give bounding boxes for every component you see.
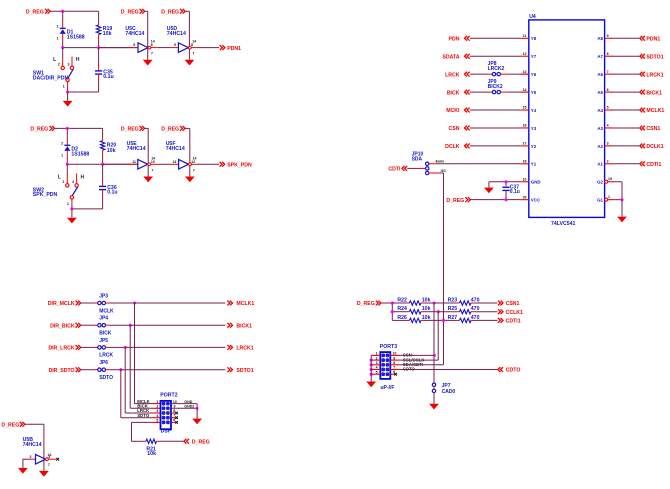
ground under U5F [185, 177, 195, 183]
svg-text:5: 5 [376, 370, 378, 374]
port DCLK1 [640, 143, 664, 150]
svg-text:10k: 10k [107, 148, 116, 154]
wire BICK down to PORT2 pin 2 [130, 325, 160, 408]
svg-text:5: 5 [133, 43, 135, 47]
op-amp/inverter U5B 74HC14 (spare) [23, 437, 51, 464]
svg-text:LRCK1: LRCK1 [646, 72, 663, 78]
svg-text:74HC14: 74HC14 [167, 31, 186, 37]
op-amp/inverter U5F 74HC14 [166, 141, 196, 169]
resistor R19 10k [96, 22, 112, 48]
port DIR_MCLK [48, 301, 81, 308]
svg-text:PDN: PDN [449, 37, 460, 43]
svg-text:74HC14: 74HC14 [23, 442, 42, 448]
IC pin 10 GND [521, 177, 541, 184]
node junction D_REG/D2 [66, 127, 69, 130]
svg-text:3: 3 [29, 455, 31, 459]
ground under U5B supply [39, 471, 49, 477]
PORT2 no-connect pins 8,7,6 [171, 409, 178, 424]
ground under U5D [185, 60, 195, 66]
svg-text:R25: R25 [448, 306, 458, 312]
wire node CCLK junction [425, 310, 440, 313]
wire U5F out to port SPK_PDN [191, 163, 219, 165]
resistor R21 10k [146, 439, 183, 457]
wire PORT2 pin 5 to R21 [132, 422, 161, 441]
port MCKI (input to U4) [446, 108, 469, 115]
svg-text:10k: 10k [103, 31, 112, 37]
port D_REG (U5C supply) [121, 9, 145, 16]
op-amp/inverter U5E 74HC14 [127, 141, 155, 169]
port CDTI1 [640, 161, 662, 168]
wire U5E out to U5F in [151, 160, 179, 164]
svg-text:A8: A8 [597, 36, 603, 41]
svg-text:3: 3 [68, 63, 70, 67]
svg-text:SDATA: SDATA [442, 54, 459, 60]
IC pin 9 A8 [597, 34, 613, 41]
port SPK_PDN [220, 162, 252, 169]
port LRCK (input to U4) [445, 72, 470, 79]
port SDTO1 [640, 54, 664, 61]
svg-text:SDTO: SDTO [137, 413, 150, 418]
node junction MCLK [133, 301, 136, 304]
ground under U5E [143, 177, 153, 183]
svg-text:CAD0: CAD0 [442, 389, 456, 395]
capacitor C35 0.1u [95, 48, 114, 92]
IC pin 11 Y8 [521, 34, 537, 41]
wire PDN to U4 [470, 37, 521, 39]
svg-text:8: 8 [191, 43, 193, 47]
svg-text:7: 7 [173, 414, 175, 418]
svg-text:DAC/DIR_PDN: DAC/DIR_PDN [33, 75, 69, 81]
svg-text:MCLK1: MCLK1 [646, 108, 664, 114]
svg-text:9: 9 [174, 43, 176, 47]
svg-text:R24: R24 [397, 306, 407, 312]
switch SW2 SPK_PDN [33, 164, 85, 209]
svg-text:R23: R23 [448, 297, 458, 303]
resistor R23 470 [434, 297, 480, 305]
diode D1 1S1588 [57, 11, 85, 47]
svg-text:Y4: Y4 [531, 108, 537, 113]
svg-text:DIR_LRCK: DIR_LRCK [48, 346, 74, 352]
svg-text:4: 4 [156, 414, 158, 418]
wire mid row block2 [66, 163, 138, 166]
svg-text:15: 15 [523, 106, 527, 110]
svg-text:PORT3: PORT3 [380, 344, 397, 350]
svg-text:1: 1 [57, 37, 59, 41]
wire to port BICK1 [130, 324, 225, 326]
port CSN (input to U4) [449, 126, 470, 133]
svg-text:JP3: JP3 [99, 293, 108, 299]
svg-text:1: 1 [376, 352, 378, 356]
IC pin 19 G2 [597, 177, 613, 185]
wire U5B output no-connect [48, 458, 59, 461]
svg-text:SDTO1: SDTO1 [236, 368, 253, 374]
svg-text:2: 2 [57, 24, 59, 28]
wire PORT3 pin7 CDTO to port [390, 369, 497, 371]
svg-text:JP7: JP7 [442, 383, 451, 389]
wire U4 A7 to port SDTO1 [613, 55, 639, 57]
svg-text:5: 5 [607, 106, 609, 110]
jumper JP7 CAD0 [432, 383, 455, 404]
jumper JP5 LRCK [81, 338, 125, 359]
node junction BICK [129, 324, 132, 327]
svg-text:1: 1 [61, 154, 63, 158]
svg-text:A7: A7 [597, 54, 603, 59]
svg-text:12: 12 [191, 160, 195, 164]
svg-text:3: 3 [607, 142, 609, 146]
PORT3 right pin numbers and names [393, 352, 426, 374]
svg-text:19: 19 [608, 177, 612, 181]
wire U5F supply / power pins 14,7 [185, 128, 196, 176]
svg-text:LRCK2: LRCK2 [488, 66, 505, 72]
svg-text:LRCK: LRCK [99, 353, 113, 359]
wire SDTO down to PORT2 pin 4 [121, 370, 161, 418]
wire U4 A6 to port LRCK1 [613, 73, 639, 75]
svg-text:Y3: Y3 [531, 126, 537, 131]
svg-text:CSN1: CSN1 [506, 301, 520, 307]
jumper JP10 SDA [412, 151, 429, 174]
svg-text:12: 12 [523, 52, 527, 56]
svg-text:D_REG: D_REG [192, 440, 210, 446]
ground at U4 G1/G2 [617, 217, 627, 223]
svg-text:Y6: Y6 [531, 72, 537, 77]
svg-text:D_REG: D_REG [446, 198, 464, 204]
svg-text:74HC14: 74HC14 [127, 146, 146, 152]
svg-text:13: 13 [172, 160, 176, 164]
IC pin 6 A5 [597, 88, 613, 95]
svg-text:DIR_BICK: DIR_BICK [50, 323, 75, 329]
svg-text:GND2: GND2 [184, 405, 194, 409]
svg-text:7: 7 [151, 52, 153, 56]
svg-text:3wire: 3wire [435, 159, 444, 163]
IC pin 2 A1 [597, 160, 613, 167]
resistor R26 10k [394, 315, 431, 323]
wire node CDTI junction [425, 319, 445, 322]
svg-text:G2: G2 [597, 180, 603, 185]
wire U4 A5 to port BICK1 [613, 91, 639, 93]
port D_REG (U4 VCC) [446, 197, 470, 204]
wire to port LRCK1 [125, 346, 225, 348]
IC pin 13 Y6 [521, 70, 537, 77]
port CSN1 [498, 301, 520, 308]
svg-text:DCLK1: DCLK1 [646, 144, 663, 150]
svg-text:8: 8 [173, 409, 175, 413]
port BICK1 [227, 323, 252, 330]
svg-text:R26: R26 [397, 315, 407, 321]
svg-text:CDTI1: CDTI1 [506, 319, 521, 325]
svg-text:D_REG: D_REG [121, 127, 139, 133]
IC pin 18 Y1 [521, 160, 537, 167]
resistor R20 10k [100, 138, 116, 165]
port CSN1 [640, 126, 661, 133]
svg-text:JP4: JP4 [99, 316, 108, 322]
port MCLK1 [640, 108, 665, 115]
IC pin 4 A3 [597, 124, 613, 131]
svg-text:0.1u: 0.1u [107, 190, 117, 196]
wire CDTI/I2C vertical to PORT3 pin 8 [442, 319, 445, 365]
svg-text:BICK1: BICK1 [236, 323, 252, 329]
op-amp/inverter U5C 74HC14 [125, 26, 152, 53]
wire PORT3 pin8 SDA/CDTI [390, 364, 443, 366]
wire I2C vertical down to R26 node [443, 173, 445, 320]
svg-text:2: 2 [376, 356, 378, 360]
port BICK (input to U4) [447, 90, 470, 97]
wire U4 GND pin to ground [489, 182, 521, 188]
op-amp/inverter U5D 74HC14 [167, 26, 193, 53]
wire to port SDTO1 [121, 369, 226, 371]
svg-text:CDTO: CDTO [506, 368, 521, 374]
svg-text:D_REG: D_REG [357, 301, 375, 307]
port LRCK1 [227, 345, 253, 352]
diode D2 1S1588 [61, 128, 89, 164]
svg-text:7: 7 [48, 463, 50, 467]
wire MCLK down to PORT2 pin 1 [135, 303, 161, 404]
svg-text:D_REG: D_REG [161, 10, 179, 16]
wire DCLK to U4 [470, 145, 521, 147]
svg-text:Y7: Y7 [531, 54, 537, 59]
wire SW1 common to C35 bottom [66, 90, 99, 93]
svg-text:4: 4 [607, 124, 609, 128]
svg-text:4: 4 [376, 366, 378, 370]
svg-text:L: L [53, 57, 56, 63]
svg-text:1: 1 [608, 195, 610, 199]
wire node CSN junction [425, 301, 436, 304]
ground at PORT2 [192, 419, 202, 425]
svg-text:JP6: JP6 [99, 360, 108, 366]
svg-text:DIR_MCLK: DIR_MCLK [48, 301, 75, 307]
ground at U4 GND [484, 188, 494, 194]
wire JP10 bottom to I2C net [429, 169, 447, 173]
port PDN1 [220, 45, 241, 52]
svg-text:1S1588: 1S1588 [67, 35, 85, 41]
svg-text:16: 16 [523, 124, 527, 128]
svg-text:SPK_PDN: SPK_PDN [227, 163, 252, 169]
svg-text:A5: A5 [597, 90, 603, 95]
svg-text:R22: R22 [397, 297, 407, 303]
wire to port CCLK1 [475, 311, 497, 313]
connector PORT3 (uP I/F) [380, 344, 397, 391]
svg-text:SDTO: SDTO [99, 375, 113, 381]
svg-text:2: 2 [62, 180, 64, 184]
resistor R24 10k [394, 306, 431, 314]
IC U4 74LVC541 body [529, 14, 605, 227]
svg-text:SDA: SDA [412, 156, 423, 162]
switch SW1 DAC/DIR_PDN [33, 48, 80, 92]
svg-text:Y1: Y1 [531, 162, 537, 167]
port D_REG (R21 pull-up) [184, 439, 210, 446]
wire U5E supply / power pins 14,7 [145, 128, 155, 176]
wire LRCK down to PORT2 pin 3 [125, 347, 160, 413]
PORT3 pin 6 no-connect [390, 373, 397, 376]
svg-text:0.1u: 0.1u [510, 189, 520, 195]
ground under SW1 [63, 92, 73, 107]
wire U4 A2 to port DCLK1 [613, 145, 639, 147]
svg-text:Y8: Y8 [531, 36, 537, 41]
svg-text:H: H [81, 175, 85, 181]
svg-text:CSN: CSN [449, 126, 460, 132]
ground at PORT3 [366, 382, 376, 388]
port D_REG (U5B supply) [1, 422, 24, 429]
svg-text:PDN1: PDN1 [646, 37, 660, 43]
port DCLK (input to U4) [445, 143, 470, 150]
svg-text:10: 10 [173, 400, 177, 404]
svg-text:L: L [58, 175, 61, 181]
IC pin 8 A7 [597, 52, 613, 59]
svg-text:2: 2 [58, 63, 60, 67]
svg-text:11: 11 [132, 160, 136, 164]
wire U5D supply / power pins 14,7 [185, 11, 196, 60]
svg-text:BICK: BICK [99, 331, 112, 337]
svg-text:JP5: JP5 [99, 338, 108, 344]
wire R19 node to U5C input [99, 43, 138, 47]
port D_REG (pull-up feed) [357, 301, 381, 308]
svg-text:1S1588: 1S1588 [71, 152, 89, 158]
wire U5B supply [25, 424, 51, 471]
ground at JP7 [429, 404, 439, 410]
svg-text:CDTI: CDTI [388, 167, 401, 173]
IC pin 7 A6 [597, 70, 613, 77]
svg-text:7: 7 [607, 70, 609, 74]
svg-text:A3: A3 [597, 126, 603, 131]
svg-text:Y5: Y5 [531, 90, 537, 95]
svg-text:MCKI: MCKI [446, 108, 460, 114]
port SDATA (input to U4) [442, 54, 469, 61]
jumper JP4 BICK [81, 316, 130, 337]
svg-text:GND: GND [531, 180, 541, 185]
svg-text:A2: A2 [597, 144, 603, 149]
wire U4 G2/G1 enables to ground [613, 182, 624, 217]
svg-text:3: 3 [376, 361, 378, 365]
resistor R25 470 [438, 306, 479, 314]
PORT3 left pins to ground bar [370, 352, 381, 382]
svg-text:74HC14: 74HC14 [125, 31, 144, 37]
svg-text:18: 18 [523, 160, 527, 164]
svg-text:1: 1 [67, 202, 69, 206]
wire U4 A3 to port CSN1 [613, 127, 639, 129]
svg-text:LRCK1: LRCK1 [236, 346, 253, 352]
svg-text:13: 13 [523, 70, 527, 74]
svg-text:MCLK1: MCLK1 [236, 301, 254, 307]
svg-text:6: 6 [607, 88, 609, 92]
svg-text:3: 3 [72, 180, 74, 184]
resistor R22 10k [392, 297, 430, 305]
svg-text:DCLK: DCLK [445, 144, 460, 150]
svg-text:DIR_SDTO: DIR_SDTO [48, 368, 74, 374]
port BICK1 [640, 90, 662, 97]
svg-text:Y2: Y2 [531, 144, 537, 149]
jumper JP6 SDTO [81, 360, 121, 381]
svg-text:PORT2: PORT2 [160, 393, 177, 399]
port CCLK1 [498, 309, 523, 316]
svg-text:10: 10 [151, 160, 155, 164]
svg-text:LRCK: LRCK [445, 72, 460, 78]
svg-text:GND: GND [184, 400, 192, 404]
capacitor C36 0.1u [99, 164, 118, 209]
wire U4 A4 to port MCLK1 [613, 109, 639, 111]
svg-text:4: 4 [48, 455, 50, 459]
wire CSN pull-up vertical to PORT3 pin 10 and JP7 [433, 303, 436, 383]
jumper JP9 BICK2 [470, 79, 529, 94]
wire CCLK pull-up vertical to PORT3 pin 9 [437, 312, 439, 360]
svg-text:H: H [76, 57, 80, 63]
wire CDTI to JP10 middle [407, 167, 425, 169]
port MCLK1 [227, 301, 254, 308]
wire mid row block1 [61, 46, 138, 49]
svg-text:MCLK: MCLK [99, 308, 114, 314]
port CDTI [388, 166, 407, 173]
wire SW2 common to C36 bottom [70, 207, 102, 210]
wire U5C out to U5D in [151, 43, 179, 47]
PORT2 pin 10/9 GND2 wires [171, 400, 199, 419]
node junction GND/C37 [504, 180, 507, 183]
svg-text:U4: U4 [529, 14, 536, 20]
port D_REG (block2) [30, 126, 54, 133]
svg-text:uP-I/F: uP-I/F [381, 385, 395, 391]
svg-text:9: 9 [607, 34, 609, 38]
IC pin 20 VCC [521, 195, 541, 202]
svg-text:BICK2: BICK2 [488, 84, 503, 90]
PORT2 left pin names and numbers [137, 399, 158, 423]
port PDN1 [640, 36, 661, 43]
wire PORT3 pin10 CSN [390, 354, 434, 356]
svg-text:PDN1: PDN1 [227, 46, 241, 52]
IC pin 3 A2 [597, 142, 613, 149]
svg-text:10: 10 [523, 177, 527, 181]
svg-text:SDTO1: SDTO1 [646, 54, 663, 60]
node junction SDTO [119, 368, 122, 371]
port LRCK1 [640, 72, 664, 79]
svg-text:17: 17 [523, 142, 527, 146]
wire SDATA to U4 [470, 55, 521, 57]
svg-text:10k: 10k [147, 451, 156, 457]
svg-text:A6: A6 [597, 72, 603, 77]
IC pin 5 A4 [597, 106, 613, 113]
svg-text:I2C: I2C [441, 169, 447, 173]
port D_REG (block1 top-left) [26, 9, 50, 16]
port SDTO1 [227, 367, 253, 374]
port D_REG (U5F supply) [161, 126, 185, 133]
svg-text:D_REG: D_REG [121, 10, 139, 16]
svg-text:D_REG: D_REG [26, 10, 44, 16]
svg-text:14: 14 [523, 88, 527, 92]
IC pin 1 G1 [597, 195, 613, 203]
svg-text:74LVC541: 74LVC541 [551, 221, 576, 227]
svg-text:74HC14: 74HC14 [166, 146, 185, 152]
wire U4 A8 to port PDN1 [613, 37, 639, 39]
svg-text:20: 20 [523, 195, 527, 199]
svg-text:7: 7 [151, 168, 153, 172]
svg-text:6: 6 [151, 43, 153, 47]
svg-text:A1: A1 [597, 162, 603, 167]
svg-text:D_REG: D_REG [1, 423, 19, 429]
wire PORT3 pin9 SCL/CCLK [390, 359, 438, 361]
connector PORT2 (DSP I/F) [160, 393, 177, 435]
wire D_REG to U4 VCC [471, 198, 521, 201]
jumper JP8 LRCK2 [470, 61, 529, 76]
svg-text:G1: G1 [597, 198, 603, 203]
port DIR_SDTO [48, 367, 80, 374]
IC pin 12 Y7 [521, 52, 537, 59]
wire to port MCLK1 [135, 302, 226, 304]
svg-text:0.1u: 0.1u [103, 74, 113, 80]
wire U5D out to port PDN1 [191, 47, 219, 49]
svg-text:2: 2 [607, 160, 609, 164]
wire U5C supply / power pins 14,7 [145, 11, 155, 60]
wire to port CSN1 [475, 302, 497, 304]
wire U4 A1 to port CDTI1 [613, 163, 639, 165]
svg-text:3: 3 [156, 409, 158, 413]
svg-text:7: 7 [193, 168, 195, 172]
port D_REG (U5D supply) [161, 9, 185, 16]
